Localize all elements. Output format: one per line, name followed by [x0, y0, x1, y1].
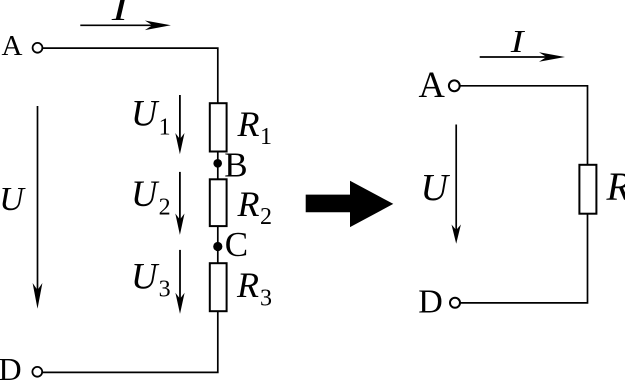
wire A to R1 (left circuit)	[42, 48, 217, 103]
wire R to D (right circuit)	[460, 214, 587, 303]
node C junction dot	[213, 242, 222, 251]
voltage label U3	[131, 255, 171, 302]
label R3	[236, 265, 272, 311]
resistor R1	[210, 103, 227, 151]
resistor R	[579, 165, 596, 214]
terminal D (left circuit)	[32, 367, 42, 377]
svg-text:D: D	[418, 283, 443, 320]
equivalence arrow (big black arrow)	[306, 181, 394, 227]
label R2	[237, 184, 273, 230]
svg-text:R: R	[237, 184, 260, 224]
resistor R2	[210, 179, 227, 226]
voltage arrow U1	[175, 95, 184, 154]
svg-text:A: A	[2, 30, 23, 62]
label R1	[237, 104, 273, 150]
current arrow I (right circuit)	[480, 52, 565, 62]
svg-text:U: U	[0, 181, 26, 218]
svg-text:I: I	[510, 23, 526, 59]
terminal A (left circuit)	[33, 43, 43, 53]
voltage label U2	[131, 173, 171, 220]
svg-text:R: R	[606, 164, 625, 209]
svg-text:I: I	[110, 0, 130, 28]
svg-text:B: B	[224, 146, 247, 185]
svg-text:U: U	[131, 255, 160, 296]
svg-text:2: 2	[159, 194, 171, 220]
voltage arrow U3	[175, 250, 184, 314]
wire R1 to R2	[217, 153, 219, 180]
voltage arrow U (right circuit)	[452, 125, 461, 244]
svg-text:3: 3	[159, 277, 171, 303]
svg-text:3: 3	[260, 285, 272, 311]
svg-text:U: U	[131, 93, 160, 134]
terminal A (right circuit)	[449, 80, 460, 91]
svg-text:U: U	[421, 167, 451, 209]
svg-text:D: D	[0, 351, 22, 381]
svg-text:A: A	[419, 64, 446, 105]
node B junction dot	[213, 159, 222, 168]
voltage label U1	[131, 93, 171, 141]
resistor R3	[210, 263, 227, 311]
wire R3 to D (left circuit)	[42, 311, 218, 372]
svg-text:2: 2	[260, 204, 272, 230]
svg-text:U: U	[131, 173, 160, 214]
svg-text:R: R	[236, 265, 259, 305]
wire A to resistor R (right circuit)	[460, 86, 588, 165]
svg-text:C: C	[225, 225, 248, 264]
voltage arrow U2	[175, 172, 184, 235]
svg-text:R: R	[237, 104, 260, 144]
wire R2 to R3	[217, 226, 219, 263]
current arrow I (left circuit)	[80, 21, 171, 31]
svg-text:1: 1	[260, 124, 272, 150]
voltage arrow U (left circuit)	[33, 106, 43, 309]
svg-text:1: 1	[159, 114, 171, 140]
terminal D (right circuit)	[450, 298, 460, 308]
